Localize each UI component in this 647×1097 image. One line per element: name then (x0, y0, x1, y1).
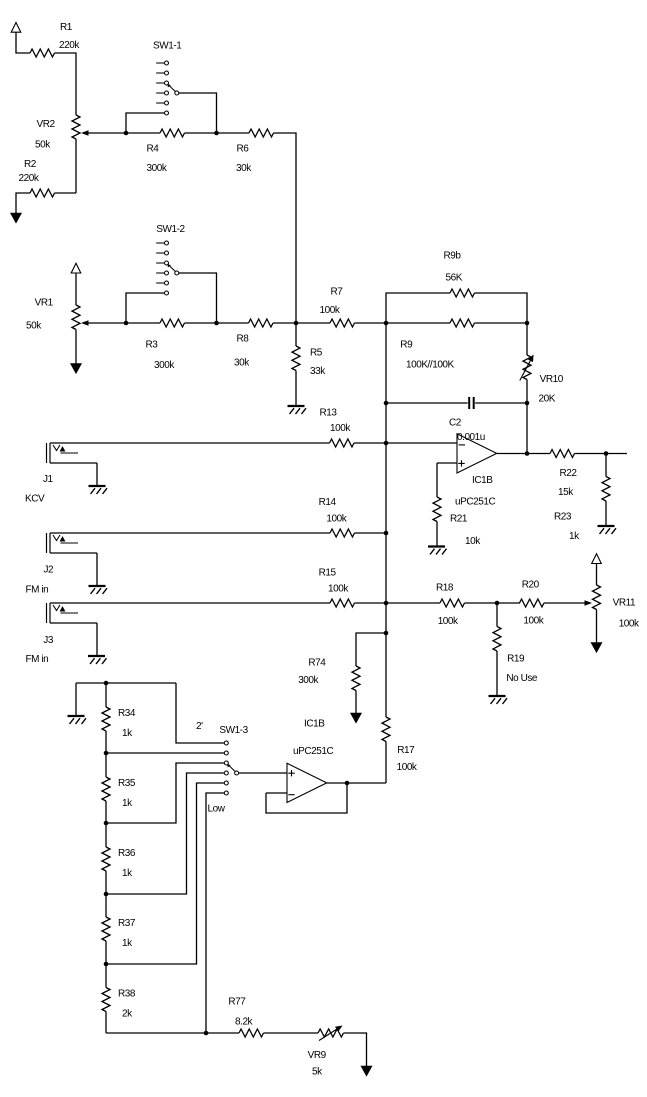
svg-text:SW1-1: SW1-1 (153, 41, 182, 52)
svg-text:FM in: FM in (26, 585, 49, 596)
svg-text:R34: R34 (118, 708, 136, 719)
svg-text:C2: C2 (449, 418, 462, 429)
svg-text:1k: 1k (122, 938, 133, 949)
svg-text:R3: R3 (146, 340, 159, 351)
svg-text:VR9: VR9 (308, 1050, 327, 1061)
svg-text:R17: R17 (397, 745, 415, 756)
svg-text:0.001u: 0.001u (457, 432, 485, 443)
svg-text:5k: 5k (312, 1067, 323, 1078)
svg-text:10k: 10k (465, 536, 481, 547)
svg-text:J3: J3 (43, 635, 54, 646)
svg-text:R13: R13 (320, 408, 338, 419)
svg-text:R4: R4 (147, 144, 160, 155)
svg-text:100K//100K: 100K//100K (406, 360, 455, 371)
svg-text:SW1-2: SW1-2 (156, 224, 185, 235)
svg-text:J1: J1 (43, 474, 54, 485)
svg-text:1k: 1k (122, 728, 133, 739)
svg-text:220k: 220k (19, 173, 40, 184)
svg-text:220k: 220k (59, 40, 80, 51)
svg-text:15k: 15k (558, 487, 574, 498)
svg-text:VR1: VR1 (35, 298, 54, 309)
svg-text:R6: R6 (237, 144, 250, 155)
svg-text:VR2: VR2 (37, 119, 56, 130)
svg-text:1k: 1k (569, 531, 580, 542)
svg-text:2': 2' (196, 721, 203, 732)
svg-text:50k: 50k (35, 140, 51, 151)
svg-text:R1: R1 (60, 22, 73, 33)
svg-text:56K: 56K (446, 273, 463, 284)
svg-text:R15: R15 (319, 568, 337, 579)
svg-text:300k: 300k (154, 360, 175, 371)
svg-text:R18: R18 (436, 583, 454, 594)
svg-text:300k: 300k (298, 675, 319, 686)
svg-text:R37: R37 (118, 918, 136, 929)
svg-text:30k: 30k (236, 163, 252, 174)
svg-text:2k: 2k (122, 1009, 133, 1020)
svg-text:20K: 20K (539, 394, 556, 405)
svg-text:100k: 100k (523, 616, 544, 627)
svg-text:300k: 300k (147, 163, 168, 174)
svg-text:100k: 100k (619, 619, 640, 630)
svg-text:R77: R77 (228, 997, 246, 1008)
svg-text:R9b: R9b (444, 251, 462, 262)
svg-text:uPC251C: uPC251C (293, 746, 333, 757)
svg-text:R22: R22 (560, 468, 578, 479)
svg-text:Low: Low (208, 804, 226, 815)
svg-text:R36: R36 (118, 848, 136, 859)
svg-text:100k: 100k (326, 514, 347, 525)
svg-text:R38: R38 (118, 989, 136, 1000)
svg-text:1k: 1k (122, 798, 133, 809)
svg-text:100k: 100k (397, 762, 418, 773)
svg-text:uPC251C: uPC251C (455, 497, 495, 508)
svg-text:100k: 100k (328, 584, 349, 595)
svg-text:R74: R74 (308, 658, 326, 669)
svg-text:VR10: VR10 (540, 374, 564, 385)
svg-text:R8: R8 (237, 334, 250, 345)
svg-text:R14: R14 (319, 497, 337, 508)
svg-text:KCV: KCV (25, 494, 45, 505)
svg-text:R5: R5 (310, 348, 323, 359)
svg-text:33k: 33k (310, 366, 326, 377)
svg-text:No Use: No Use (506, 673, 538, 684)
svg-text:1k: 1k (122, 868, 133, 879)
svg-text:R35: R35 (118, 778, 136, 789)
svg-text:100k: 100k (320, 305, 341, 316)
svg-text:VR11: VR11 (613, 598, 636, 609)
svg-text:R21: R21 (450, 514, 468, 525)
svg-text:J2: J2 (44, 565, 55, 576)
svg-text:FM in: FM in (26, 654, 49, 665)
svg-text:R2: R2 (24, 159, 37, 170)
svg-text:IC1B: IC1B (472, 475, 493, 486)
svg-text:IC1B: IC1B (304, 719, 325, 730)
svg-text:R9: R9 (400, 340, 413, 351)
svg-text:R19: R19 (507, 654, 525, 665)
svg-text:SW1-3: SW1-3 (219, 725, 248, 736)
svg-text:100k: 100k (438, 616, 459, 627)
svg-text:R20: R20 (522, 580, 540, 591)
svg-text:30k: 30k (234, 358, 250, 369)
svg-text:8.2k: 8.2k (235, 1017, 254, 1028)
svg-text:100k: 100k (330, 423, 351, 434)
svg-text:50k: 50k (26, 321, 42, 332)
svg-text:R23: R23 (554, 512, 572, 523)
svg-text:R7: R7 (331, 287, 344, 298)
